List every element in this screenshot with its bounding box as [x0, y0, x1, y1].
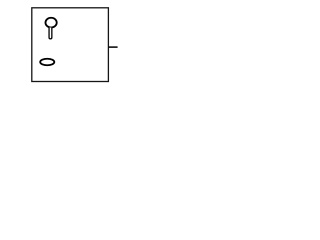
pin wire [109, 46, 118, 48]
key symbol [45, 18, 56, 39]
ellipse [40, 59, 54, 65]
node box [32, 8, 109, 82]
